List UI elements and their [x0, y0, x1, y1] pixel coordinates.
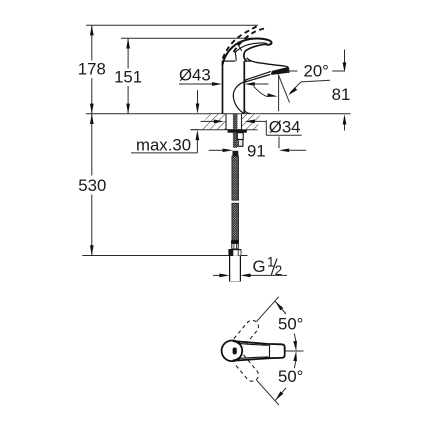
svg-text:20°: 20° — [304, 62, 329, 81]
G1/2 connection pipe — [230, 256, 241, 282]
top view: lever knob — [222, 341, 243, 362]
countertop deck — [86, 114, 351, 130]
dimension max.30 — [131, 90, 197, 153]
dimension 20 deg — [254, 74, 330, 111]
dimension G 1/2 — [213, 274, 287, 276]
faucet spout — [245, 58, 289, 82]
svg-text:151: 151 — [114, 68, 142, 87]
svg-text:50°: 50° — [278, 314, 303, 333]
dimension 50 deg lower — [257, 360, 296, 405]
dimension 81 — [287, 50, 345, 131]
svg-text:91: 91 — [247, 141, 266, 160]
dimension 91 — [209, 149, 306, 151]
dimension 151 — [121, 38, 252, 114]
bottom reference line — [82, 255, 247, 257]
top view: lever arm solid — [237, 341, 285, 360]
faucet loop handle — [222, 39, 271, 65]
top view: centerline — [285, 350, 304, 352]
svg-text:178: 178 — [78, 60, 106, 79]
svg-text:G: G — [253, 257, 266, 276]
dimension D34 — [201, 120, 302, 148]
threaded shank through deck — [233, 114, 238, 130]
svg-text:530: 530 — [78, 176, 106, 195]
svg-text:81: 81 — [332, 85, 351, 104]
dimension 530 — [91, 114, 93, 256]
svg-text:Ø34: Ø34 — [269, 117, 301, 136]
dimension 50 deg upper — [257, 297, 296, 342]
faucet body — [222, 61, 252, 114]
aerator — [271, 67, 289, 75]
svg-text:max.30: max.30 — [136, 135, 191, 154]
fixing nut — [233, 133, 243, 148]
dimension 178 — [86, 25, 258, 114]
flexible hose — [228, 151, 241, 256]
dashed raised handle position — [223, 26, 265, 59]
dimension D43 — [179, 83, 269, 85]
svg-text:Ø43: Ø43 — [179, 65, 211, 84]
mounting flange — [228, 130, 247, 133]
top view: dashed lever rotated up 50 — [234, 318, 261, 347]
top view: dashed lever rotated down 50 — [234, 355, 261, 384]
svg-text:2: 2 — [275, 263, 283, 278]
svg-text:50°: 50° — [278, 367, 303, 386]
